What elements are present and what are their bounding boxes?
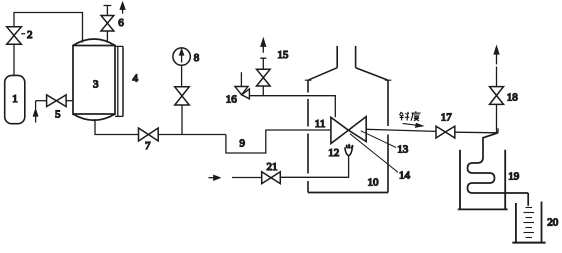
wire valve 7 to gauge junction — [158, 134, 226, 136]
relief line valve (below arrow 15) — [257, 69, 271, 86]
wire inlet to valve 5 — [36, 100, 47, 102]
svg-text:5: 5 — [55, 109, 61, 121]
valve 6 stem with tick — [104, 6, 112, 16]
wire valve 2 to cylinder 1 — [13, 44, 15, 75]
vent arrow near 6 — [122, 8, 124, 14]
valve 18 stem below — [496, 104, 498, 132]
svg-text:16: 16 — [226, 94, 238, 106]
gauge valve — [175, 87, 190, 105]
svg-text:12: 12 — [328, 147, 339, 159]
wire valve 5 to tank 3 — [66, 100, 73, 102]
burner flame 12 — [345, 144, 354, 156]
svg-text:13: 13 — [397, 143, 409, 155]
label xiedu (slope) — [400, 111, 421, 121]
svg-text:4: 4 — [133, 73, 139, 85]
inlet arrow 21 line — [209, 177, 215, 179]
valve 6 — [101, 16, 114, 32]
slope arrow — [403, 123, 417, 125]
pointer line 14 — [350, 134, 398, 173]
condenser coil in bath 19 — [468, 133, 529, 193]
valve 2 — [7, 27, 22, 44]
valve 21 — [262, 172, 281, 184]
svg-text:6: 6 — [118, 17, 124, 29]
svg-text:7: 7 — [145, 140, 151, 152]
gas cylinder 1 — [5, 75, 25, 123]
wire valve 21 to burner 12 — [280, 156, 348, 178]
vent arrow 15 — [262, 46, 264, 53]
vessel 10 right wall — [387, 80, 389, 192]
valve 5 — [47, 95, 67, 107]
wire to valve 21 — [232, 177, 262, 179]
svg-text:2: 2 — [27, 29, 33, 41]
svg-text:11: 11 — [315, 118, 326, 130]
svg-text:1: 1 — [12, 93, 17, 105]
pointer line 13 — [361, 131, 396, 148]
svg-text:10: 10 — [368, 177, 380, 189]
junction tick — [497, 128, 499, 133]
inlet arrow below valve 5 — [35, 101, 37, 109]
angle valve 16 stem — [240, 72, 242, 86]
valve 18 — [490, 87, 504, 105]
wire top-left from valve 2 to tank 3 dome — [14, 13, 83, 43]
pipe 9 loop seal — [226, 130, 331, 153]
svg-text:8: 8 — [194, 52, 200, 64]
vessel 10 shoulders — [308, 68, 388, 81]
svg-text:17: 17 — [441, 112, 453, 124]
svg-text:15: 15 — [277, 49, 289, 61]
furnace vessel 10 chimney — [337, 46, 355, 68]
sloped pipe to valve 17 — [366, 129, 436, 131]
water bath 19 — [460, 150, 505, 210]
stem with tick above relief valve — [260, 58, 266, 69]
vent arrow above valve 18 — [496, 54, 498, 65]
wire valve 17 to junction — [455, 131, 498, 134]
valve 17 — [436, 126, 455, 138]
gauge stem — [181, 65, 183, 87]
wire valve 16 to nozzle 11 — [250, 96, 336, 118]
graduations — [524, 208, 535, 238]
drain pipe to cylinder 20 — [527, 193, 529, 206]
jacket 4 — [115, 46, 123, 116]
svg-text:3: 3 — [93, 79, 99, 91]
svg-text:14: 14 — [399, 169, 411, 181]
vessel 10 bottom — [308, 192, 388, 194]
measuring cylinder 20 — [516, 202, 542, 243]
svg-text:19: 19 — [508, 171, 520, 183]
wire tank 3 bottom to valve 7 — [95, 119, 139, 135]
pressure gauge 8 — [173, 48, 190, 65]
svg-text:21: 21 — [267, 161, 278, 173]
svg-text:18: 18 — [507, 92, 519, 104]
angle valve 16 — [235, 87, 250, 99]
mixing nozzle 11 — [331, 117, 366, 144]
valve 7 — [139, 128, 159, 141]
svg-text:9: 9 — [240, 138, 246, 150]
svg-text:20: 20 — [547, 217, 559, 229]
vessel 10 left wall — [307, 80, 309, 192]
tank 3 body — [73, 39, 115, 120]
